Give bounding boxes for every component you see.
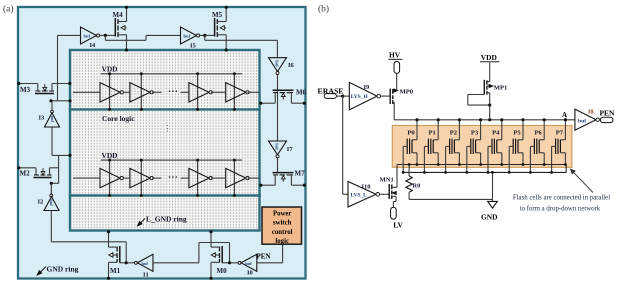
wire M3 to core box <box>52 83 70 85</box>
svg-text:VDD: VDD <box>481 53 497 62</box>
flash gate rail <box>403 171 566 173</box>
wire M2 to chain <box>50 167 59 169</box>
wire I8 to PEN port <box>599 119 601 121</box>
inverter U14 <box>226 83 246 102</box>
buffer I5 <box>181 27 197 44</box>
svg-text:P5: P5 <box>513 130 521 137</box>
GND ring outer rectangle <box>18 7 306 279</box>
wire I6 output to M6 gate and I7 <box>277 75 279 142</box>
annotation arrow <box>572 171 593 193</box>
wire M1 gate to I1 output <box>120 262 135 264</box>
node A junction <box>564 118 567 121</box>
wire M6 to right ring <box>291 102 305 104</box>
wire inverter supply tap row 1 #3 <box>197 74 199 110</box>
wire I0 input to power switch box <box>257 262 283 264</box>
wire I2 input chain to bottom <box>50 211 52 242</box>
svg-text:P0: P0 <box>407 130 415 137</box>
flash cell P3 <box>465 118 482 174</box>
svg-text:R0: R0 <box>413 182 421 189</box>
svg-text:I10: I10 <box>362 183 371 190</box>
flash cell P1 <box>423 118 440 174</box>
svg-text:VDD: VDD <box>102 65 118 74</box>
inverter U21 <box>100 168 120 187</box>
svg-text:PEN: PEN <box>600 109 615 118</box>
svg-text:P3: P3 <box>471 130 479 137</box>
svg-text:M3: M3 <box>20 86 31 94</box>
wire inverter supply tap row 2 #4 <box>233 160 235 195</box>
svg-text:Power: Power <box>273 211 292 218</box>
level shifter I10 <box>348 182 376 208</box>
ERASE port <box>324 94 336 99</box>
GND ring label arrow <box>40 267 46 273</box>
svg-text:M0: M0 <box>217 267 228 275</box>
wire I3 input chain <box>51 127 53 155</box>
svg-text:I7: I7 <box>287 146 294 153</box>
svg-text:buf: buf <box>142 261 149 266</box>
wire jog M4 gate node to I5 input <box>104 35 106 40</box>
ellipsis dots row 2 <box>169 176 171 178</box>
flash rail end connector <box>565 165 567 173</box>
svg-text:Core logic: Core logic <box>102 114 135 123</box>
wire chain jog down past M2 <box>58 155 60 183</box>
wire M4 source to core box <box>126 35 128 50</box>
wire HV to MP0 <box>396 73 398 90</box>
svg-text:to form a drop-down network: to form a drop-down network <box>520 206 601 213</box>
wire inverter supply tap row 1 #4 <box>233 74 235 110</box>
svg-text:MN1: MN1 <box>380 177 394 184</box>
buffer I8 <box>575 109 596 130</box>
svg-text:L_GND ring: L_GND ring <box>146 215 187 224</box>
svg-text:buf: buf <box>274 60 279 67</box>
wire I10 output to MN1 gate <box>380 193 390 195</box>
VDD rail row 1 <box>101 73 242 75</box>
wire inverter supply tap row 1 #2 <box>140 74 142 110</box>
svg-text:I9: I9 <box>364 84 371 91</box>
svg-text:P1: P1 <box>429 130 436 137</box>
core logic hatched box (L_GND ring) <box>70 50 260 231</box>
flash cell P7 <box>550 118 567 174</box>
buffer I7 <box>269 141 287 155</box>
inverter U13 <box>189 83 209 102</box>
wire gate rail to GND <box>492 172 494 201</box>
wire M5 source to core box <box>225 35 227 50</box>
svg-text:LV: LV <box>393 220 403 229</box>
wire M1 source to bottom ring <box>108 262 110 278</box>
wire M7 to core box <box>261 184 276 186</box>
wire inverter supply tap row 1 #1 <box>109 74 111 110</box>
flash cell P5 <box>508 118 525 174</box>
svg-text:HV: HV <box>389 51 401 60</box>
svg-text:M1: M1 <box>110 267 121 275</box>
svg-text:P2: P2 <box>450 130 458 137</box>
svg-text:M5: M5 <box>212 11 223 19</box>
flash cell box <box>392 126 572 168</box>
LV port <box>391 207 397 219</box>
wire left ring to M3 <box>18 83 38 85</box>
svg-text:buf: buf <box>245 261 252 266</box>
wire jog M5 gate node to I6 input <box>204 35 206 40</box>
wire MN1 source to LV port <box>395 196 397 201</box>
inverter U24 <box>226 168 246 187</box>
svg-text:M7: M7 <box>295 170 306 178</box>
svg-text:control: control <box>272 229 293 236</box>
wire I5 output to M5 gate <box>200 34 215 36</box>
svg-text:Flash cells are connected in p: Flash cells are connected in parallel <box>513 194 610 201</box>
wire MP1 gate loop <box>468 94 485 96</box>
svg-text:buf: buf <box>84 34 91 39</box>
svg-text:buf: buf <box>274 143 279 150</box>
wire L_GND ring to M0 drain <box>210 232 212 248</box>
wire M5 drain to top ring <box>225 7 227 22</box>
flash cell P4 <box>487 118 504 174</box>
wire left ring to M2 <box>18 167 36 169</box>
svg-text:I6: I6 <box>288 62 295 69</box>
svg-text:buf: buf <box>49 199 54 206</box>
wire inverter supply tap row 2 #3 <box>197 160 199 195</box>
wire inverter supply tap row 2 #1 <box>109 160 111 195</box>
svg-text:I2: I2 <box>38 199 44 206</box>
svg-text:LVS_L: LVS_L <box>351 193 368 199</box>
svg-text:MP1: MP1 <box>494 85 508 92</box>
svg-text:P4: P4 <box>492 130 500 137</box>
svg-text:M2: M2 <box>20 170 31 178</box>
wire I1 input bridge over M0 <box>153 262 199 264</box>
svg-text:I4: I4 <box>90 42 97 49</box>
wire chain stub to core box row2 <box>52 154 71 156</box>
svg-text:switch: switch <box>273 220 292 227</box>
row divider rail 2 <box>69 194 261 196</box>
svg-text:M4: M4 <box>113 11 124 19</box>
inverter U12 <box>130 83 150 102</box>
wire I9 output to MP0 gate <box>381 95 391 97</box>
svg-text:(a): (a) <box>3 4 14 15</box>
L_GND ring label arrow <box>140 219 145 224</box>
buffer I3 <box>51 101 53 111</box>
svg-text:LVS_H: LVS_H <box>351 94 369 100</box>
flash cell P2 <box>444 118 461 174</box>
buffer I0 <box>238 261 241 264</box>
power switch control logic box <box>262 207 302 244</box>
node A rail <box>394 119 575 121</box>
svg-text:(b): (b) <box>318 4 329 15</box>
svg-text:I3: I3 <box>39 115 46 122</box>
svg-text:buf: buf <box>578 118 586 124</box>
svg-text:MP0: MP0 <box>400 88 414 95</box>
svg-text:logic: logic <box>275 238 289 245</box>
buffer I2 <box>50 183 52 194</box>
svg-text:P6: P6 <box>535 130 543 137</box>
buffer I6 <box>269 58 287 72</box>
svg-text:VDD: VDD <box>102 151 118 160</box>
wire MP1 drain down <box>489 93 491 105</box>
wire M0 gate to I0 output <box>222 262 238 264</box>
svg-text:M6: M6 <box>296 89 307 97</box>
PEN port <box>600 117 613 122</box>
flash cell P0 <box>402 118 419 174</box>
wire L_GND ring to M1 drain <box>108 232 110 248</box>
wire I4 input from I3 output node <box>57 35 59 100</box>
svg-text:P7: P7 <box>556 130 564 137</box>
VDD rail row 2 <box>101 159 242 161</box>
svg-text:GND: GND <box>481 212 497 221</box>
flash source rail <box>397 164 566 166</box>
wire R0 to GND <box>409 198 492 200</box>
wire M7 to right ring <box>291 184 305 186</box>
svg-text:buf: buf <box>50 116 55 123</box>
svg-text:⋮: ⋮ <box>164 124 172 133</box>
wire M0 source to bottom ring <box>210 262 212 278</box>
wire MN1 drain to source rail <box>396 165 398 188</box>
wire I7 output to M7 gate <box>277 158 279 173</box>
row divider rail 1 <box>69 108 261 110</box>
wire inverter supply tap row 2 #2 <box>140 160 142 195</box>
ellipsis dots row 1 <box>169 90 171 92</box>
buffer I1 <box>134 261 137 264</box>
wire I3 output node to core box <box>51 100 71 102</box>
buffer I4 <box>81 27 97 44</box>
flash cell P6 <box>529 118 546 174</box>
wire MP1 to node rail <box>489 105 491 120</box>
svg-text:I1: I1 <box>143 272 149 279</box>
wire MP0 to node rail <box>393 102 395 120</box>
wire I4 output to M4 gate <box>100 34 116 36</box>
svg-text:PEN: PEN <box>257 253 271 261</box>
inverter U11 <box>100 83 120 102</box>
wire M6 to core box <box>261 102 276 104</box>
wire VDD to MP1 <box>489 63 491 82</box>
svg-text:A: A <box>562 111 567 119</box>
wire M4 drain to top ring <box>126 7 128 22</box>
inverter U22 <box>130 168 150 187</box>
HV port <box>394 61 400 73</box>
svg-text:I8: I8 <box>588 109 594 116</box>
svg-text:I5: I5 <box>190 43 197 50</box>
inverter U23 <box>189 168 209 187</box>
level shifter I9 <box>349 82 377 110</box>
wire inverter chain row 2 <box>73 177 100 179</box>
GND symbol <box>488 201 498 208</box>
svg-text:I0: I0 <box>247 270 253 277</box>
wire ERASE to I10 <box>342 96 344 194</box>
svg-text:GND ring: GND ring <box>47 265 79 274</box>
svg-text:buf: buf <box>184 34 191 39</box>
wire ERASE to I9 <box>336 95 349 97</box>
wire inverter chain row 1 <box>73 91 100 93</box>
